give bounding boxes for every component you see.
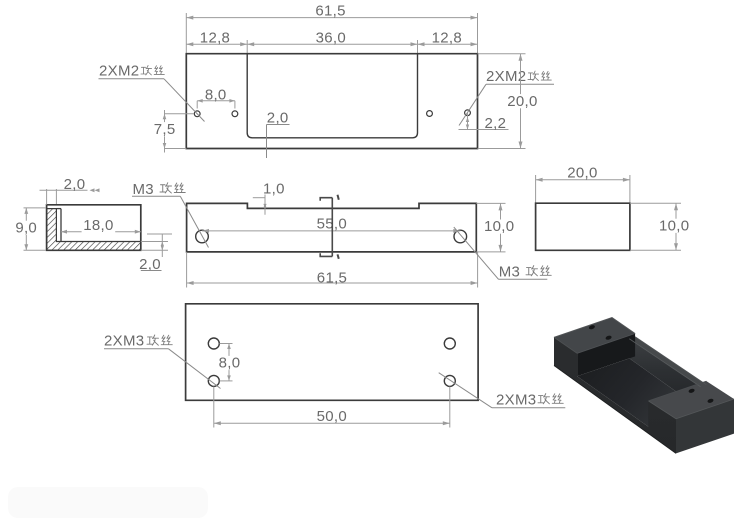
- front view: outline with 1.0 notch: [187, 203, 477, 252]
- top view: tapped hole M2 left A: [194, 111, 200, 117]
- top view: dimension 7,5 hole to bottom edge: [165, 113, 194, 115]
- svg-text:M3: M3: [499, 263, 520, 280]
- section view: dimension 9,0 height left: [24, 207, 47, 209]
- 3d render: right block top face: [648, 381, 734, 419]
- 3d render: back wall top strip: [629, 337, 706, 387]
- 3d render: top edge highlights: [554, 318, 635, 338]
- 3d render: channel floor: [577, 358, 701, 426]
- svg-text:10,0: 10,0: [484, 218, 514, 235]
- bottom view: outline 61.5 x 20: [186, 304, 479, 401]
- top view: tapped hole M2 right B: [465, 110, 471, 116]
- top view: dimension 61,5 overall width: [185, 13, 187, 54]
- bottom view: tapped hole M3 bottom-right: [444, 375, 455, 386]
- bottom view: tapped hole M3 top-right: [444, 338, 455, 349]
- 3d render: right block inner top edge highlight: [648, 381, 706, 401]
- top view: tapped hole M2 right A: [427, 111, 433, 117]
- section view: dimension 18,0 inner length: [61, 231, 141, 233]
- svg-text:36,0: 36,0: [316, 30, 346, 47]
- 3d render: right end face: [676, 399, 734, 453]
- svg-text:M3: M3: [133, 181, 154, 198]
- top view: outer outline 61.5 x 20: [186, 54, 477, 149]
- svg-text:2,0: 2,0: [267, 109, 289, 126]
- 3d render: tapped holes on top faces: [588, 324, 595, 330]
- svg-text:61,5: 61,5: [317, 269, 347, 286]
- section view: dimension 2,0 plate thickness bottom: [147, 233, 172, 235]
- svg-text:12,8: 12,8: [432, 30, 462, 47]
- 3d render: right block inner face: [648, 381, 706, 427]
- svg-text:20,0: 20,0: [507, 93, 537, 110]
- top view: tapped hole M2 left B: [232, 111, 238, 117]
- svg-text:9,0: 9,0: [15, 219, 37, 236]
- svg-text:8,0: 8,0: [219, 355, 241, 372]
- side view: dimension 10,0 height right: [630, 202, 681, 204]
- bottom view: dimension 8,0 hole spacing: [220, 343, 233, 345]
- section view: inner step edge behind cut: [60, 209, 62, 242]
- side view: outline 20 x 10: [536, 203, 630, 250]
- top view: dimension 20,0 height right: [478, 53, 526, 55]
- svg-text:12,8: 12,8: [200, 30, 230, 47]
- side view: dimension 20,0 width top: [535, 175, 537, 203]
- svg-text:10,0: 10,0: [659, 217, 689, 234]
- section view: hatched L-shaped cut (wall + plate): [47, 209, 141, 251]
- 3d render: left block inner shadow face: [577, 334, 635, 377]
- section view: outline top/right/bottom edges: [47, 205, 141, 251]
- svg-text:8,0: 8,0: [205, 87, 227, 104]
- svg-text:20,0: 20,0: [567, 165, 597, 182]
- 3d render: left block inner top edge highlight: [577, 334, 635, 354]
- top view: recess pocket outline 36 wide: [247, 54, 417, 138]
- svg-text:2XM2: 2XM2: [99, 63, 139, 80]
- bottom view: dimension 50,0 hole spacing bottom: [213, 387, 215, 428]
- top view: dimension 2,2 right hole offset: [467, 113, 469, 130]
- svg-text:1,0: 1,0: [263, 180, 285, 197]
- front view: dimension 61,5 overall bottom: [186, 252, 188, 288]
- svg-text:7,5: 7,5: [154, 121, 176, 138]
- 3d render: back wall inner face: [629, 339, 700, 409]
- svg-text:2XM3: 2XM3: [104, 333, 144, 350]
- svg-text:2XM3: 2XM3: [496, 391, 536, 408]
- front view: tapped hole M3 right: [454, 230, 467, 243]
- section view: dimension 2,0 wall thickness top: [46, 189, 48, 205]
- front view: dimension 10,0 height right: [476, 202, 505, 204]
- bottom view: tapped hole M3 top-left: [208, 338, 219, 349]
- svg-text:18,0: 18,0: [83, 217, 113, 234]
- top view: dimension 8,0 between left holes: [197, 100, 235, 102]
- svg-text:61,5: 61,5: [315, 2, 345, 19]
- front view: tapped hole M3 left: [196, 230, 209, 243]
- svg-text:50,0: 50,0: [317, 408, 347, 425]
- svg-text:2,0: 2,0: [64, 176, 86, 193]
- front view: section cut line with hooks: [331, 198, 333, 257]
- top view: dimension row 12,8 / 36,0 / 12,8: [186, 43, 477, 45]
- 3d render: front stepped face full length: [554, 337, 676, 453]
- 3d render: left block top face: [554, 318, 635, 354]
- svg-text:2,2: 2,2: [485, 115, 507, 132]
- bottom view: tapped hole M3 bottom-left: [208, 375, 219, 386]
